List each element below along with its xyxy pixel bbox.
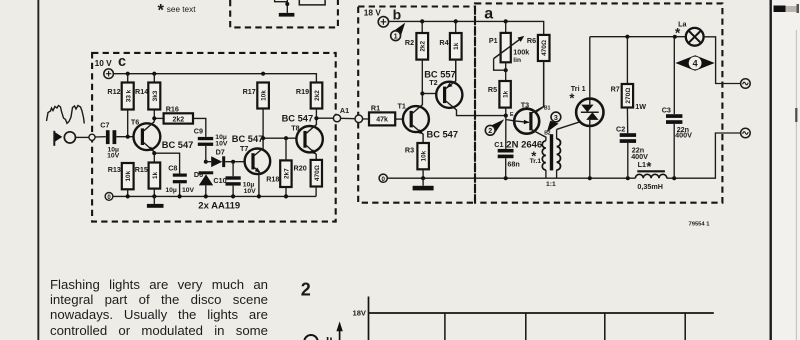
svg-text:lin: lin <box>513 57 521 64</box>
inductor L1 <box>635 159 666 191</box>
lamp La <box>675 19 741 83</box>
capacitor C10 <box>213 160 256 197</box>
resistor R14 <box>135 83 160 110</box>
svg-text:R1: R1 <box>371 103 380 112</box>
svg-text:T2: T2 <box>429 78 437 87</box>
svg-text:BC 547: BC 547 <box>232 134 264 144</box>
transistor T1 BC547 <box>398 94 459 144</box>
svg-text:10k: 10k <box>421 150 428 161</box>
wire R17 stub and T7C-T8B wire <box>261 109 297 141</box>
resistor R18 <box>266 138 291 196</box>
capacitor C2 <box>616 125 648 179</box>
terminal 0 box b <box>379 174 387 183</box>
svg-text:D7: D7 <box>216 148 225 157</box>
svg-text:B1: B1 <box>544 106 551 112</box>
marker 3 <box>547 112 561 132</box>
graph arrow <box>336 321 342 340</box>
svg-text:18V: 18V <box>352 309 366 318</box>
label 2x AA119 <box>198 200 240 211</box>
svg-text:R16: R16 <box>166 105 179 114</box>
note: see text <box>158 2 197 20</box>
junction dots top rail c <box>126 72 266 76</box>
wire R16 tap <box>152 116 163 120</box>
svg-text:C10: C10 <box>213 176 226 185</box>
resistor R6 <box>527 35 550 113</box>
partial label <box>328 337 331 340</box>
wire input to C7 <box>95 136 106 138</box>
svg-text:R12: R12 <box>107 87 120 96</box>
svg-text:b: b <box>393 6 402 22</box>
wire emitter to C8 <box>154 153 179 173</box>
resistor R19 <box>296 83 322 109</box>
svg-text:see text: see text <box>167 5 196 14</box>
svg-text:10V: 10V <box>215 140 228 147</box>
scan artifact top right <box>774 4 800 13</box>
svg-text:C7: C7 <box>100 120 109 129</box>
top dashed box (partial) <box>230 0 338 27</box>
node D6/D7/C9 <box>204 160 208 164</box>
marker 2 <box>485 119 504 135</box>
partial terminal circle <box>304 335 318 340</box>
resistor R2 <box>405 21 428 93</box>
part number 79554 1 <box>689 222 711 228</box>
ground box c <box>147 196 164 207</box>
graph ticks <box>445 313 685 340</box>
potentiometer P1 <box>489 21 529 81</box>
wire C7 to T6 base <box>116 135 134 139</box>
svg-text:T6: T6 <box>131 118 139 127</box>
node A1 <box>314 106 349 122</box>
terminal A1 on box b edge <box>341 115 363 123</box>
label a <box>484 6 493 23</box>
svg-text:R2: R2 <box>405 38 414 47</box>
svg-text:68n: 68n <box>507 160 519 169</box>
svg-text:100k: 100k <box>513 48 529 57</box>
svg-text:T8: T8 <box>291 123 299 132</box>
resistor R4 <box>439 21 461 80</box>
svg-text:BC 547: BC 547 <box>162 140 194 150</box>
svg-text:1k: 1k <box>503 90 510 98</box>
svg-text:2k2: 2k2 <box>314 90 321 101</box>
graph axis <box>352 297 713 340</box>
svg-text:1k: 1k <box>453 42 460 50</box>
figure 2 label <box>301 279 311 299</box>
svg-text:R7: R7 <box>611 85 620 94</box>
transistor T6 BC547 <box>131 118 193 152</box>
svg-text:R4: R4 <box>439 38 448 47</box>
svg-text:R17: R17 <box>243 87 256 96</box>
scan artifact right edge <box>795 30 797 340</box>
resistor R15 <box>135 163 161 197</box>
wire top rail box c <box>113 74 316 83</box>
transistor T8 BC547 <box>282 113 323 160</box>
svg-text:R13: R13 <box>108 165 121 174</box>
svg-text:18 V: 18 V <box>364 7 382 17</box>
svg-text:R3: R3 <box>405 145 414 154</box>
svg-text:R19: R19 <box>296 87 309 96</box>
svg-text:270Ω: 270Ω <box>625 88 632 104</box>
svg-text:*: * <box>158 2 165 20</box>
page rule right <box>770 0 772 340</box>
transistor T3 2N2646 UJT <box>506 61 551 151</box>
wire R14 stub <box>153 74 155 122</box>
capacitor C3 <box>662 37 692 179</box>
svg-text:C1: C1 <box>494 140 503 149</box>
supply 18V label <box>364 7 382 17</box>
svg-text:BC 547: BC 547 <box>427 129 459 139</box>
wire triac MT2 rail <box>590 35 686 39</box>
svg-text:1W: 1W <box>635 102 646 111</box>
svg-text:10k: 10k <box>261 90 268 101</box>
label c <box>118 54 126 70</box>
svg-text:3: 3 <box>554 113 558 122</box>
transistor T2 BC557 <box>424 60 506 116</box>
svg-text:47k: 47k <box>376 117 388 124</box>
svg-text:a: a <box>484 6 493 23</box>
supply 10V label <box>95 58 113 68</box>
svg-text:E: E <box>510 112 514 118</box>
svg-text:33 k: 33 k <box>125 89 132 102</box>
svg-text:1k: 1k <box>152 172 159 180</box>
resistor R16 <box>164 105 193 124</box>
AC output 1 <box>741 79 751 89</box>
transistor T7 BC547 <box>232 134 270 197</box>
svg-text:c: c <box>118 54 126 70</box>
resistor R20 <box>294 160 323 197</box>
svg-text:3k3: 3k3 <box>152 90 159 101</box>
resistor R17 <box>243 83 269 109</box>
svg-text:10k: 10k <box>125 170 132 181</box>
svg-text:2: 2 <box>301 279 311 299</box>
svg-text:4: 4 <box>693 58 698 68</box>
svg-text:1:1: 1:1 <box>546 181 556 188</box>
AC output 2 <box>741 128 751 138</box>
svg-text:10V: 10V <box>182 187 195 194</box>
mic squiggle <box>47 106 85 124</box>
svg-text:C2: C2 <box>616 125 625 134</box>
terminal 0 box c <box>105 193 113 201</box>
svg-text:C9: C9 <box>194 127 203 136</box>
triac Tri1 <box>557 37 604 179</box>
capacitor C1 <box>494 140 519 178</box>
transformer Tr1 <box>530 129 561 188</box>
marker 1 <box>391 23 406 41</box>
wire bottom rail box c <box>113 194 316 198</box>
svg-text:R14: R14 <box>135 87 148 96</box>
svg-text:10V: 10V <box>107 152 120 159</box>
dashed box b <box>358 7 475 203</box>
ground box b <box>413 178 434 190</box>
svg-text:10V: 10V <box>244 188 257 195</box>
resistor R3 <box>405 143 429 178</box>
node R2/T1C/T2B <box>420 91 436 95</box>
resistor R5 <box>488 81 511 116</box>
marker diamond 4 <box>675 55 714 71</box>
resistor R1 <box>363 103 403 125</box>
input terminal on box edge <box>89 134 95 140</box>
svg-text:T7: T7 <box>240 144 248 153</box>
svg-text:2: 2 <box>488 126 492 135</box>
wire bottom rail b/a <box>387 133 740 180</box>
mic circle <box>64 132 89 143</box>
dashed box a <box>475 3 722 202</box>
svg-text:R20: R20 <box>294 164 307 173</box>
svg-text:R5: R5 <box>488 85 497 94</box>
svg-text:470Ω: 470Ω <box>541 40 548 56</box>
terminal +10V <box>104 69 114 79</box>
diode D6 AA119 <box>194 170 213 196</box>
svg-text:2k2: 2k2 <box>420 41 427 52</box>
wire in top box <box>275 0 290 13</box>
resistor R13 <box>108 163 134 196</box>
mic symbol <box>54 131 62 146</box>
svg-text:P1: P1 <box>489 36 498 45</box>
svg-text:*: * <box>675 25 681 40</box>
wire top rail b/a <box>389 19 544 35</box>
svg-text:C8: C8 <box>168 164 177 173</box>
page column rule left <box>37 0 39 340</box>
svg-text:2k2: 2k2 <box>172 116 184 123</box>
svg-text:470Ω: 470Ω <box>314 165 321 181</box>
svg-text:10µ: 10µ <box>165 187 177 194</box>
capacitor C7 <box>100 120 119 159</box>
wire R12 stub <box>127 74 129 137</box>
svg-text:L1: L1 <box>638 160 646 169</box>
svg-text:10 V: 10 V <box>95 58 113 68</box>
svg-text:1: 1 <box>394 32 398 41</box>
label b <box>393 6 402 22</box>
node E / C1 top <box>504 112 515 149</box>
svg-text:BC 547: BC 547 <box>282 113 314 123</box>
svg-text:T3: T3 <box>521 100 529 109</box>
svg-text:R6: R6 <box>527 36 536 45</box>
capacitor C9 <box>194 127 228 162</box>
dashed box c <box>92 53 336 222</box>
svg-text:D6: D6 <box>194 170 203 179</box>
svg-text:2k7: 2k7 <box>283 168 290 179</box>
resistor R12 <box>107 83 133 110</box>
svg-text:0: 0 <box>381 176 385 183</box>
wire T6 emitter node <box>152 151 156 163</box>
component box (partial, top box) <box>299 0 325 5</box>
svg-text:79554 1: 79554 1 <box>689 222 711 228</box>
ground (top box) <box>279 13 295 17</box>
svg-text:R18: R18 <box>266 175 279 184</box>
svg-text:2x AA119: 2x AA119 <box>198 200 240 211</box>
diode D7 AA119 <box>206 148 245 168</box>
terminal +18V <box>378 17 388 27</box>
svg-text:400V: 400V <box>675 131 692 140</box>
svg-text:A1: A1 <box>340 106 349 115</box>
svg-text:R15: R15 <box>135 165 148 174</box>
svg-text:0,35mH: 0,35mH <box>637 182 663 191</box>
svg-text:C3: C3 <box>662 105 671 114</box>
resistor R7 <box>611 37 647 134</box>
svg-text:T1: T1 <box>398 102 406 111</box>
capacitor C8 <box>165 164 194 197</box>
wire R16 to C9 <box>193 118 206 136</box>
svg-text:Tr.1: Tr.1 <box>530 158 542 165</box>
